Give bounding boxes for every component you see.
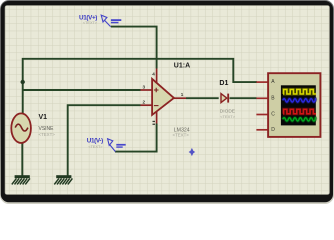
scope input stub B xyxy=(256,97,268,99)
trace D green sine xyxy=(283,118,316,121)
svg-text:4: 4 xyxy=(152,71,155,76)
svg-text:2: 2 xyxy=(143,100,146,105)
ground 1 xyxy=(12,175,30,184)
svg-text:C: C xyxy=(271,112,275,118)
svg-text:3: 3 xyxy=(143,85,146,90)
power terminal U1(V+) xyxy=(101,15,121,27)
origin marker xyxy=(189,148,196,156)
trace C red pulse wave xyxy=(283,109,316,114)
wire V- rail to pin 11 xyxy=(115,124,157,152)
scope input stub A xyxy=(256,81,268,83)
pin 2 stub xyxy=(141,104,153,106)
svg-text:V1: V1 xyxy=(39,114,48,121)
svg-text:<TEXT>: <TEXT> xyxy=(173,133,190,138)
svg-text:<TEXT>: <TEXT> xyxy=(88,145,103,149)
svg-text:<TEXT>: <TEXT> xyxy=(39,132,56,137)
svg-text:U1(V-): U1(V-) xyxy=(87,138,103,145)
wire op-amp output to diode xyxy=(186,97,219,99)
svg-text:<TEXT>: <TEXT> xyxy=(220,114,236,119)
svg-text:1: 1 xyxy=(181,92,184,97)
diode D1 xyxy=(221,94,228,103)
trace A yellow square wave xyxy=(283,89,316,94)
sine source V1 xyxy=(11,113,31,143)
power terminal U1(V-) xyxy=(108,139,126,152)
pin 11 stub xyxy=(156,111,158,123)
wire V1 top to scope A run xyxy=(23,59,257,114)
svg-text:U1:A: U1:A xyxy=(174,63,190,70)
scope input stub C xyxy=(256,114,268,116)
scope input stub D xyxy=(256,129,268,131)
pin 1 output stub xyxy=(174,97,186,99)
wire diode to scope B xyxy=(230,97,257,99)
svg-text:D1: D1 xyxy=(219,80,228,87)
junction dot xyxy=(21,80,25,84)
wire V1 bottom to ground1 xyxy=(21,143,23,176)
svg-text:<TEXT>: <TEXT> xyxy=(83,21,98,25)
trace B blue sine xyxy=(283,99,316,102)
oscilloscope screen xyxy=(281,85,316,125)
op-amp U1:A xyxy=(152,79,174,115)
pin 4 stub xyxy=(156,69,158,84)
wire ground2 to inverting input xyxy=(68,105,141,175)
schematic background with grid xyxy=(5,6,330,195)
wire V+ rail to pin 4 xyxy=(111,27,157,69)
wire branch to op-amp noninverting input xyxy=(23,89,141,91)
pin 3 stub xyxy=(141,89,153,91)
svg-text:D: D xyxy=(271,127,275,133)
pin number 11 xyxy=(153,121,156,122)
oscilloscope body xyxy=(268,73,320,137)
ground 2 xyxy=(54,175,72,184)
